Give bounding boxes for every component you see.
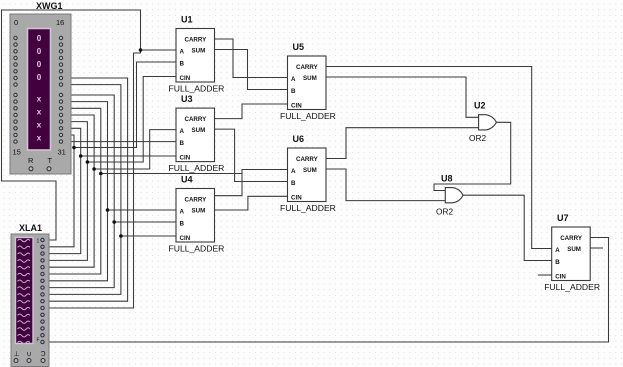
svg-text:FULL_ADDER: FULL_ADDER [280, 111, 336, 121]
svg-text:A: A [555, 247, 560, 254]
svg-text:FULL_ADDER: FULL_ADDER [544, 282, 600, 292]
svg-text:CIN: CIN [180, 235, 191, 242]
svg-text:CIN: CIN [180, 75, 191, 82]
svg-text:SUM: SUM [192, 127, 206, 134]
svg-text:A: A [291, 76, 296, 83]
svg-text:FULL_ADDER: FULL_ADDER [169, 163, 225, 173]
svg-text:x: x [37, 120, 42, 130]
svg-text:A: A [180, 49, 185, 56]
svg-text:0: 0 [37, 47, 42, 56]
svg-text:0: 0 [14, 18, 18, 27]
svg-text:CARRY: CARRY [296, 156, 319, 163]
svg-text:SUM: SUM [192, 208, 206, 215]
svg-text:0: 0 [37, 73, 42, 82]
svg-text:XWG1: XWG1 [36, 1, 63, 11]
svg-text:OR2: OR2 [469, 133, 486, 143]
svg-text:B: B [180, 221, 185, 228]
svg-text:CARRY: CARRY [185, 37, 208, 44]
svg-text:x: x [37, 133, 42, 143]
svg-text:U4: U4 [181, 175, 193, 185]
svg-text:CARRY: CARRY [296, 64, 319, 71]
svg-text:SUM: SUM [303, 75, 317, 82]
svg-text:B: B [180, 61, 185, 68]
svg-text:F: F [37, 338, 40, 344]
svg-text:CIN: CIN [291, 195, 302, 202]
svg-text:CARRY: CARRY [185, 116, 208, 123]
svg-text:OR2: OR2 [436, 207, 453, 217]
svg-text:U7: U7 [557, 213, 569, 223]
svg-text:R: R [28, 156, 34, 165]
svg-text:T: T [48, 156, 53, 165]
svg-text:SUM: SUM [192, 48, 206, 55]
svg-text:FULL_ADDER: FULL_ADDER [169, 84, 225, 94]
svg-text:U3: U3 [181, 94, 193, 104]
svg-text:CARRY: CARRY [185, 197, 208, 204]
svg-text:SUM: SUM [567, 246, 581, 253]
svg-text:Ɔ: Ɔ [41, 351, 46, 358]
svg-text:FULL_ADDER: FULL_ADDER [280, 203, 336, 213]
svg-text:0: 0 [37, 60, 42, 69]
svg-text:15: 15 [13, 148, 21, 157]
svg-text:U1: U1 [181, 15, 193, 25]
svg-text:1: 1 [37, 239, 40, 245]
svg-text:A: A [180, 209, 185, 216]
svg-text:CIN: CIN [555, 274, 566, 281]
svg-text:B: B [180, 140, 185, 147]
svg-text:⊥: ⊥ [14, 351, 20, 358]
svg-text:B: B [291, 180, 296, 187]
svg-text:0: 0 [37, 34, 42, 43]
svg-text:FULL_ADDER: FULL_ADDER [169, 244, 225, 254]
svg-text:CIN: CIN [291, 103, 302, 110]
svg-text:XLA1: XLA1 [19, 223, 42, 233]
svg-text:U5: U5 [293, 42, 305, 52]
svg-text:∪: ∪ [27, 351, 32, 358]
svg-text:x: x [37, 107, 42, 117]
svg-text:B: B [291, 88, 296, 95]
svg-text:A: A [180, 128, 185, 135]
svg-text:x: x [37, 94, 42, 104]
svg-text:16: 16 [56, 18, 64, 27]
svg-text:B: B [555, 259, 560, 266]
svg-text:A: A [291, 168, 296, 175]
svg-text:SUM: SUM [303, 167, 317, 174]
svg-text:CARRY: CARRY [560, 235, 583, 242]
svg-text:U6: U6 [293, 134, 305, 144]
svg-text:CIN: CIN [180, 155, 191, 162]
svg-text:U8: U8 [441, 174, 453, 184]
svg-text:31: 31 [58, 148, 66, 157]
svg-text:U2: U2 [474, 101, 486, 111]
